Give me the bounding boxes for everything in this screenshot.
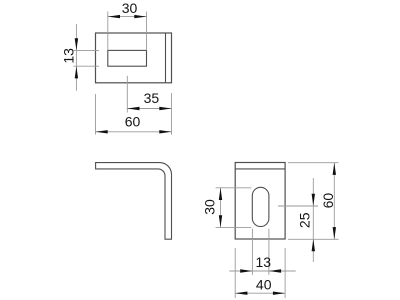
view 3: front view outer rectangle bbox=[235, 163, 285, 240]
dim 40 ext line left bbox=[234, 248, 236, 298]
dim 30 arrow left bbox=[108, 15, 120, 18]
dim 30 ext line left bbox=[107, 12, 109, 51]
dim 13B dimension line bbox=[229, 270, 295, 272]
dim 25 arrow top (outside, pointing down) bbox=[312, 194, 315, 206]
view 3: fold line bbox=[235, 168, 285, 170]
dim 25 arrow bottom (outside, pointing up) bbox=[312, 239, 315, 251]
svg-text:60: 60 bbox=[320, 193, 336, 209]
svg-text:30: 30 bbox=[202, 199, 218, 215]
dim 35 ext line (slot centre) bbox=[126, 76, 128, 113]
svg-text:60: 60 bbox=[125, 114, 141, 130]
dim 13 dimension line bbox=[75, 24, 77, 91]
dim 60R arrow top bbox=[333, 163, 336, 175]
svg-text:35: 35 bbox=[144, 90, 160, 106]
dim 30 ext line right bbox=[146, 12, 148, 51]
dim 60R arrow bottom bbox=[333, 227, 336, 239]
dim 13B arrow right (outside, pointing left) bbox=[269, 269, 281, 272]
svg-text:30: 30 bbox=[122, 0, 138, 16]
dim 60 arrow left bbox=[96, 130, 108, 133]
view 2: L-profile side view bbox=[96, 163, 172, 240]
dim 60 ext line left bbox=[95, 94, 97, 135]
dim 35 arrow right bbox=[159, 107, 171, 110]
dim 30L arrow bottom bbox=[219, 215, 222, 227]
svg-text:13: 13 bbox=[61, 48, 77, 64]
dim 40 arrow left bbox=[235, 292, 247, 295]
dim 60 ext line right bbox=[171, 93, 173, 135]
svg-text:13: 13 bbox=[256, 254, 272, 270]
svg-text:40: 40 bbox=[256, 277, 272, 293]
dim 40 arrow right bbox=[273, 292, 285, 295]
view 1: top view outer rectangle bbox=[96, 33, 172, 83]
svg-text:25: 25 bbox=[297, 212, 313, 228]
dim 60 arrow right bbox=[159, 130, 171, 133]
view 3: slot (stadium) bbox=[252, 187, 269, 226]
dim 13B ext line left bbox=[251, 229, 253, 275]
dim 13 arrow top (outside, pointing down) bbox=[75, 38, 78, 50]
dim 30 dimension line bbox=[108, 16, 147, 18]
view 1: slot rectangle bbox=[108, 50, 147, 66]
dim 35 arrow left bbox=[127, 107, 139, 110]
dim 13 ext line bottom bbox=[74, 65, 100, 67]
dim 13B arrow left (outside, pointing right) bbox=[240, 269, 252, 272]
dim 60R dimension line bbox=[333, 163, 335, 240]
dim 60 dimension line bbox=[96, 131, 172, 133]
dim 13B ext line right bbox=[268, 229, 270, 275]
dim 30L ext line bottom bbox=[216, 226, 252, 228]
dim 60R ext line bottom bbox=[288, 238, 339, 240]
dim 40 dimension line bbox=[235, 292, 285, 294]
dim 40 ext line right bbox=[284, 248, 286, 298]
dim 30 arrow right bbox=[134, 15, 146, 18]
dim 25 ext line (slot centre) bbox=[278, 205, 318, 207]
dim 25 dimension line bbox=[312, 178, 314, 262]
dim 30L arrow top bbox=[219, 188, 222, 200]
dim 30L ext line top bbox=[216, 187, 252, 189]
dim 60R ext line top bbox=[288, 162, 339, 164]
dim 13 arrow bottom (outside, pointing up) bbox=[75, 66, 78, 78]
view 1: fold line bbox=[165, 33, 167, 83]
dim 13 ext line top bbox=[74, 49, 100, 51]
dim 35 dimension line bbox=[127, 108, 171, 110]
dim 30L dimension line bbox=[220, 188, 222, 228]
